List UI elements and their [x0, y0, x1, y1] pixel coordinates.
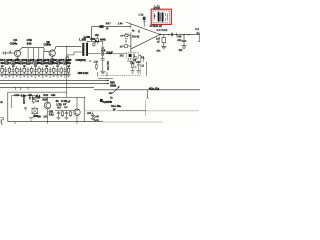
Q8 stubs	[76, 97, 78, 121]
svg-text:3.3µF: 3.3µF	[106, 50, 113, 54]
svg-text:C294x: C294x	[10, 42, 18, 46]
svg-text:4.7x: 4.7x	[49, 113, 54, 117]
ground	[100, 71, 105, 74]
IF can L-10 red highlight box	[151, 9, 171, 24]
bus line B3	[0, 86, 94, 88]
amplifier left edge	[130, 33, 132, 52]
wire corner down x91.7	[91, 27, 93, 42]
bus wire y34.6	[160, 34, 200, 36]
wire stub from can	[154, 24, 156, 27]
connector blob	[100, 99, 103, 102]
Q4 emitter branch	[16, 57, 19, 62]
capacitor tick	[24, 108, 27, 111]
svg-text:NAB: NAB	[100, 37, 106, 41]
bus line C	[94, 89, 200, 91]
bus line B1	[0, 79, 109, 81]
svg-text:20±B: 20±B	[110, 84, 116, 88]
arrowhead B2	[107, 82, 109, 84]
wire corner into Q6	[44, 48, 49, 52]
wire x147.5 drop	[147, 90, 149, 98]
resistor input top	[125, 34, 128, 36]
svg-text:1Bx: 1Bx	[95, 34, 100, 37]
left edge marks bottom	[1, 123, 3, 124]
wire primary bottom path	[68, 52, 84, 57]
pins inside can	[166, 13, 168, 21]
transistor Q6	[49, 50, 55, 56]
transistor Q4	[14, 50, 20, 56]
wire long drop x67	[66, 46, 68, 97]
diode D1	[95, 40, 98, 43]
wire corner outer	[8, 91, 67, 93]
svg-text:1.5x: 1.5x	[28, 95, 31, 100]
resistor R41	[99, 25, 103, 28]
wire Q4 collector top	[20, 48, 44, 50]
resistor mid cluster 4	[70, 111, 72, 117]
capacitor input marks	[126, 38, 127, 40]
detector dashed bottom	[101, 74, 141, 76]
wire top feed y26.6	[92, 26, 130, 28]
svg-text:R23 2.2Ω: R23 2.2Ω	[78, 71, 89, 75]
ticks under line B3	[15, 87, 28, 90]
det cluster resistor	[131, 64, 134, 68]
wire input	[5, 52, 14, 54]
wire corner inner	[12, 96, 33, 108]
resistor stack 1	[32, 96, 35, 99]
svg-text:⊥2x: ⊥2x	[93, 59, 98, 63]
svg-text:L-1x: L-1x	[139, 14, 144, 17]
svg-text:1.1x: 1.1x	[14, 93, 19, 97]
node	[66, 46, 67, 47]
svg-text:E1x: E1x	[130, 61, 135, 64]
capacitor right of Q8	[91, 112, 95, 120]
capacitor small above amp	[130, 25, 132, 28]
capacitor det	[101, 47, 104, 48]
svg-text:R51: R51	[90, 37, 95, 41]
capacitor C at x144	[143, 17, 146, 20]
dashed right edge	[140, 62, 142, 75]
resistor input bottom	[124, 45, 127, 48]
wire Q6 collector top	[55, 46, 82, 50]
left vertical x8	[7, 92, 9, 122]
capacitor series small	[9, 50, 10, 53]
svg-text:x4x: x4x	[51, 93, 56, 97]
wire drop x43.6	[43, 52, 45, 64]
Q7 stubs	[47, 97, 49, 121]
ground	[181, 46, 186, 49]
svg-text:9-02: 9-02	[27, 42, 32, 46]
capacitor mid cluster 3	[65, 111, 68, 117]
component row lower-left	[0, 58, 72, 77]
capacitor mark	[89, 61, 91, 62]
filter element	[129, 54, 132, 57]
wire primary top	[82, 43, 84, 47]
det small parts	[134, 57, 137, 62]
transformer T1 winding left	[82, 43, 84, 56]
transistor Q8	[74, 109, 80, 115]
svg-text:47±05: 47±05	[153, 7, 160, 10]
arrowhead B1	[107, 79, 109, 81]
stub x32.4	[31, 96, 33, 99]
svg-text:5+0c: 5+0c	[94, 119, 100, 122]
transformer core	[84, 43, 87, 55]
transistor Q7	[44, 102, 50, 108]
transformer winding right	[162, 12, 164, 21]
svg-text:411+¸22x: 411+¸22x	[149, 87, 160, 91]
marks under filter	[127, 58, 132, 61]
dark overlay line y110.6	[118, 110, 146, 112]
capacitor on bus	[171, 33, 172, 37]
potentiometer R50 arrow	[113, 87, 119, 93]
wire right edge det	[146, 62, 148, 76]
transformer core	[159, 13, 162, 21]
node apex	[159, 34, 161, 36]
capacitor C24	[101, 59, 105, 60]
resistor small near diode	[93, 43, 95, 45]
transformer winding left	[158, 12, 160, 21]
bottom rail gray ext	[103, 121, 163, 123]
resistor R47 branch	[163, 35, 165, 38]
capacitor C45 branch	[183, 35, 185, 41]
IF can dashed outline	[153, 11, 169, 23]
right vertical x84.2	[83, 97, 85, 121]
input capacitor left edge	[2, 51, 6, 54]
junction ticks on bus	[175, 33, 177, 37]
gray long line y110.9	[85, 110, 199, 112]
extra detector marks	[135, 56, 145, 68]
svg-text:R4 7: R4 7	[106, 23, 112, 26]
svg-text:C-8: C-8	[101, 49, 106, 53]
svg-text:CH4A05: CH4A05	[22, 95, 25, 105]
ground	[161, 46, 166, 49]
wire detector drop	[102, 41, 104, 47]
transformer T1 winding right	[86, 43, 88, 56]
gray vertical x145.6	[145, 100, 147, 117]
capacitor input extra	[125, 33, 131, 43]
det ground 2	[136, 71, 140, 73]
svg-text:R1+ 1B+: R1+ 1B+	[111, 104, 121, 108]
wire drop x33.4	[32, 48, 34, 62]
svg-text:1 44: 1 44	[118, 23, 123, 26]
capacitor C-8	[102, 52, 104, 56]
wire drop x38.8	[38, 48, 40, 62]
svg-text:(.): (.)	[138, 30, 140, 33]
capacitor mid cluster 1	[57, 111, 60, 117]
bus line B2	[0, 82, 109, 84]
capacitor inside can	[154, 13, 156, 19]
grounds mid cluster	[56, 117, 68, 119]
wire right edge drop	[198, 35, 200, 42]
resistor branch x97	[96, 35, 98, 39]
svg-text:R13: R13	[43, 98, 48, 102]
svg-text:C-4 / 14 Ω: C-4 / 14 Ω	[157, 29, 168, 32]
det cluster cap	[137, 63, 139, 71]
svg-text:R24 703: R24 703	[106, 61, 109, 70]
resistor branch x96.4	[95, 63, 97, 71]
bottom stage top rail	[32, 96, 85, 98]
svg-text:2.x±: 2.x±	[43, 93, 48, 97]
base wire to Q8	[55, 110, 74, 112]
wire stubs above pot	[98, 72, 108, 77]
Q6 emitter branch	[51, 56, 53, 58]
svg-text:4.x: 4.x	[196, 32, 200, 35]
resistor stack 2	[32, 99, 35, 102]
svg-text:C34(10±): C34(10±)	[75, 58, 85, 62]
wire drop x28.1	[27, 48, 29, 62]
svg-text:C294x: C294x	[44, 43, 52, 47]
svg-text:(+J00: (+J00	[84, 35, 91, 39]
bottom rail	[8, 121, 103, 123]
wire diagonal to amp apex	[127, 22, 161, 34]
svg-text:W¹: W¹	[113, 108, 116, 112]
ground bl	[29, 118, 34, 121]
resistor mid cluster 2	[62, 111, 64, 117]
svg-text:S4TC31-1B: S4TC31-1B	[150, 25, 163, 28]
ticks below bottom rail	[15, 122, 77, 124]
svg-text:BA=2): BA=2)	[132, 35, 139, 38]
wire filter out	[139, 55, 141, 62]
line short y78.4	[98, 77, 113, 79]
wire secondary bottom	[87, 54, 101, 56]
wire secondary top	[87, 41, 95, 43]
trimmer box with X	[32, 108, 38, 114]
amplifier lower edge wire	[131, 35, 160, 49]
ceramic filter dashed box	[126, 53, 138, 58]
det ground 1	[130, 71, 134, 73]
